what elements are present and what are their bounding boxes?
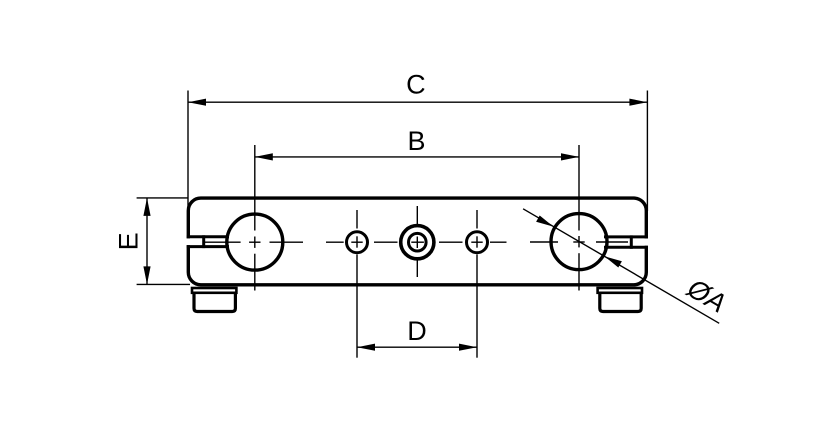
dimension C arrow left [188,99,206,106]
svg-text:E: E [114,232,144,250]
left slot upper line [187,235,229,238]
horizontal centerline small holes row [326,241,507,243]
dimension C arrow right [629,99,647,106]
dimension C extension line right [646,91,648,212]
vertical centerline left bore [254,145,256,291]
right slot upper line [604,235,648,238]
dimension B arrow left [255,153,273,160]
left slot step [202,235,205,248]
dimension B line [255,156,579,158]
right slot step [630,235,633,248]
left foot block [194,293,235,312]
dimension E extension line bottom [137,283,190,285]
right slot mouth white cut [603,239,650,246]
leader line for bore diameter [523,209,719,323]
right foot block [600,293,641,312]
leader arrow upper [536,216,553,227]
leader arrow lower [605,256,622,267]
left slot lower line [187,245,229,248]
clamp bore left [227,214,283,270]
dimension D line [357,346,477,348]
horizontal centerline right bore [530,241,628,243]
small hole right [467,232,488,253]
dimension E arrow bottom [143,266,150,284]
svg-text:D: D [407,316,427,346]
svg-text:B: B [407,126,425,156]
left slot mouth white cut [186,238,232,245]
right slot lower line [604,246,648,249]
dimension B arrow right [561,153,579,160]
vertical centerline small hole left [356,210,358,358]
small hole left [347,232,368,253]
vertical centerline center hole [416,206,418,277]
dimension D arrow right [459,344,477,351]
counterbored center hole outer [401,226,434,259]
right foot shoulder [598,288,642,293]
vertical centerline right bore [578,145,580,291]
counterbored center hole inner [409,233,427,251]
left foot shoulder [192,288,236,293]
dimension E arrow top [143,198,150,216]
svg-text:C: C [406,69,426,99]
dimension C line [188,101,647,103]
dimension C extension line left [187,91,189,212]
horizontal centerline left bore [204,241,303,243]
dimension D arrow left [357,344,375,351]
dimension E extension line top [137,197,189,199]
clamp bore right [551,214,607,270]
body outline [188,198,646,285]
vertical centerline small hole right [476,210,478,358]
dimension E line [146,198,148,285]
